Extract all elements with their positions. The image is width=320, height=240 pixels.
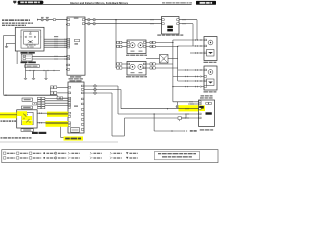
svg-text:Interior and Exterior Mirrors,: Interior and Exterior Mirrors, Fold-Back… (70, 1, 129, 5)
